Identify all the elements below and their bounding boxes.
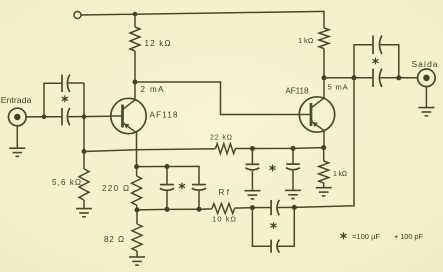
svg-text:10 kΩ: 10 kΩ (212, 215, 236, 224)
svg-text:=100 µF: =100 µF (352, 232, 380, 241)
svg-text:82 Ω: 82 Ω (104, 235, 124, 244)
svg-text:AF118: AF118 (150, 111, 179, 120)
svg-text:22 kΩ: 22 kΩ (210, 135, 232, 142)
svg-text:220 Ω: 220 Ω (102, 184, 129, 193)
svg-text:AF118: AF118 (285, 87, 309, 96)
svg-text:Saída: Saída (412, 59, 438, 69)
svg-text:12 kΩ: 12 kΩ (145, 39, 171, 48)
svg-text:1 kΩ: 1 kΩ (298, 36, 314, 45)
svg-text:2 mA: 2 mA (141, 85, 165, 94)
svg-text:+ 100 pF: + 100 pF (394, 232, 423, 241)
svg-text:1 kΩ: 1 kΩ (333, 171, 347, 178)
svg-text:5 mA: 5 mA (328, 83, 348, 92)
svg-text:Entrada: Entrada (1, 95, 32, 105)
svg-text:Rf: Rf (219, 188, 230, 197)
svg-text:5,6 kΩ: 5,6 kΩ (52, 178, 81, 187)
